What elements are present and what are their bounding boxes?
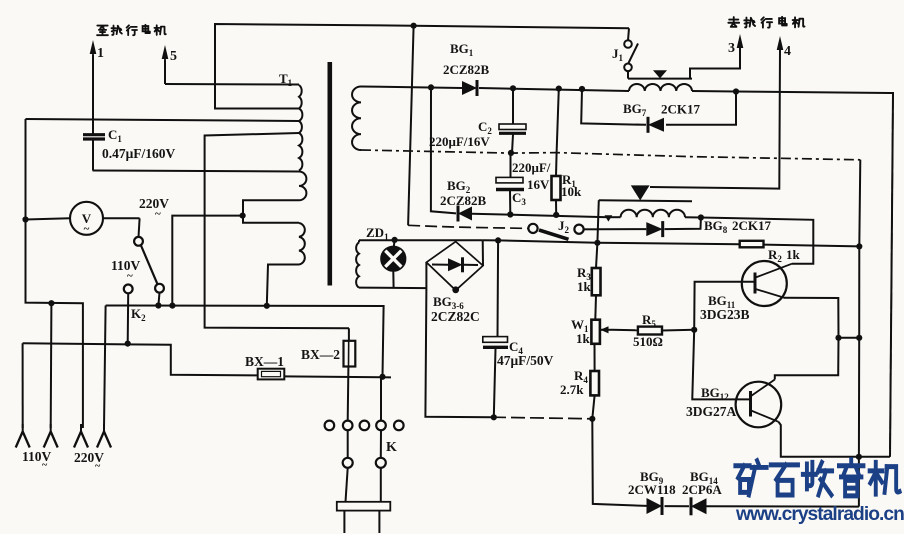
value 220uF/16V (C2)	[429, 134, 490, 149]
node: prong2 junction	[48, 300, 54, 306]
svg-text:10k: 10k	[561, 184, 582, 199]
wire: BG1 output rail y88	[479, 88, 629, 91]
svg-text:BX—1: BX—1	[245, 354, 284, 369]
resistor R4 2.7k	[590, 371, 599, 419]
diode BG2 2CZ82B	[458, 206, 472, 222]
mains plug prong A	[343, 511, 345, 533]
value 2CZ82C	[431, 309, 480, 324]
node: C2/C3 junction on dash rail	[508, 150, 514, 156]
wire: prong1 drop	[22, 343, 24, 428]
wire: BX1 to connector	[284, 376, 391, 420]
transistor BG11 3DG23B	[742, 261, 792, 306]
wire: far-east column x891	[890, 93, 893, 457]
wire: rail417 down to clamp rail	[592, 419, 646, 506]
lamp ZD1	[381, 240, 406, 288]
transistor BG12 3DG27A	[736, 380, 782, 428]
wire: rail-Q y343 to BX-1	[23, 343, 258, 375]
value 0.47uF/160V	[102, 146, 176, 161]
transformer primary winding S2	[299, 109, 302, 122]
label R3	[577, 265, 591, 282]
svg-text:5: 5	[170, 49, 177, 64]
pin label 1	[97, 46, 104, 61]
node: J2 coil-left junction	[605, 215, 613, 221]
mains prong 1	[16, 424, 30, 448]
wire: W1 bottom to R4	[594, 344, 596, 371]
wire: clamp mid link	[665, 505, 690, 507]
terminal arrow 4 (to motor)	[777, 36, 784, 51]
label 220V (plug)	[74, 450, 104, 472]
wire: BG11 emitter to mid node	[784, 298, 839, 338]
svg-text:4: 4	[784, 44, 791, 59]
wire: base column up to BG11	[694, 282, 753, 330]
label R4	[574, 368, 588, 385]
svg-text:2CZ82B: 2CZ82B	[440, 193, 487, 208]
svg-text:2CZ82C: 2CZ82C	[431, 309, 480, 324]
relay J2 armature arrow	[631, 185, 650, 200]
capacitor C1	[83, 135, 105, 171]
diode BG13 2CP6A	[691, 497, 707, 515]
resistor R1 10k	[552, 89, 561, 215]
wire: clamp rail east	[707, 505, 859, 507]
transformer primary winding S6	[299, 223, 305, 264]
svg-text:BX—2: BX—2	[301, 347, 340, 362]
svg-text:3DG27A: 3DG27A	[686, 404, 737, 419]
wire: R5 to base column	[662, 329, 694, 332]
label R1	[562, 172, 576, 189]
node: R1 tap	[556, 86, 562, 92]
label C3	[512, 190, 526, 207]
svg-text:~: ~	[95, 461, 101, 472]
relay J2 armature bar	[599, 200, 692, 201]
svg-text:2CW118: 2CW118	[628, 482, 676, 497]
node: 110V-tap on rail-P	[169, 303, 175, 309]
svg-text:K: K	[386, 440, 397, 455]
wire: R2 to east column	[764, 245, 860, 247]
svg-text:2CP6A: 2CP6A	[682, 482, 722, 497]
wire: BG2 out to J2 coil	[472, 214, 609, 218]
svg-text:3: 3	[728, 41, 735, 56]
connector K top pins	[325, 421, 404, 431]
label BG9	[640, 469, 664, 486]
wire: primary tap2 to top box	[215, 24, 629, 109]
node: K2-right on rail-P	[155, 302, 161, 308]
node: C2 tap	[510, 85, 516, 91]
transformer secondary-2 winding	[356, 242, 359, 287]
node: C4 tap on DC+ rail	[495, 237, 501, 243]
diode BG7 2CK17	[648, 117, 664, 133]
relay contact J2	[528, 224, 597, 240]
wire: primary joint-A	[243, 200, 299, 223]
wire: left rail x25	[26, 119, 83, 428]
wire: BG12 collector to mid node	[775, 338, 839, 380]
value 2.7k (R4)	[560, 382, 584, 397]
value 2CK17 (BG7)	[661, 102, 701, 117]
value 16V (C3)	[527, 177, 550, 192]
svg-text:1: 1	[97, 46, 104, 61]
node: voltmeter-left junction	[22, 216, 28, 222]
node: J2 coil-right junction	[698, 214, 704, 220]
label 110V (switch)	[111, 258, 141, 282]
wire: rail417	[492, 417, 592, 419]
wire: primary bottom lead	[267, 265, 299, 306]
wire: BG12 emitter rail	[779, 422, 891, 457]
svg-text:~: ~	[127, 270, 133, 282]
diode BG8 2CK17	[646, 221, 662, 237]
label BG8	[704, 218, 728, 235]
label BG1	[450, 41, 474, 58]
node: base column junction	[691, 327, 697, 333]
svg-text:220μF/16V: 220μF/16V	[429, 134, 490, 149]
value 47uF/50V	[497, 353, 554, 368]
resistor R2 1k	[740, 241, 764, 248]
mains prong 4	[97, 424, 111, 448]
label R2 1k	[768, 247, 801, 264]
node: bridge bottom vertex	[452, 286, 459, 293]
resistor R5 510	[638, 327, 662, 335]
svg-text:110V: 110V	[111, 258, 141, 273]
wire: secondary-1 bottom (dash rail y152)	[361, 150, 860, 160]
svg-text:1k: 1k	[577, 279, 592, 294]
relay J1 coil	[629, 84, 692, 91]
node: emitter/collector mid node	[835, 335, 841, 341]
label C4	[509, 339, 523, 356]
label BG2	[447, 178, 471, 195]
svg-text:www.crystalradio.cn: www.crystalradio.cn	[735, 504, 904, 525]
value 1k (W1)	[576, 331, 591, 346]
fuse BX-2	[344, 328, 356, 420]
watermark url www.crystalradio.cn	[735, 504, 904, 525]
wire: terminal4 drop to J2 armature	[650, 50, 780, 189]
label J1	[612, 46, 624, 63]
node: BG7 tap	[579, 86, 585, 92]
label BG14	[690, 469, 718, 486]
value 3DG23B	[700, 307, 750, 322]
capacitor C4	[483, 240, 508, 417]
wire: bridge right vertex riser	[482, 240, 484, 265]
potentiometer W1 1k	[591, 320, 638, 344]
svg-text:47μF/50V: 47μF/50V	[497, 353, 554, 368]
transformer secondary-1 winding	[352, 87, 361, 151]
terminal arrow 3 (to motor)	[737, 34, 744, 49]
capacitor C3	[496, 153, 524, 215]
svg-text:1k: 1k	[576, 331, 591, 346]
value 510ohm (R5)	[633, 334, 663, 349]
terminal arrow 1 (to motor)	[90, 40, 97, 135]
wire: bridge left column to rail417	[425, 262, 492, 417]
node: R4-bottom on rail417	[589, 416, 595, 422]
svg-text:2.7k: 2.7k	[560, 382, 584, 397]
relay contact J1	[624, 40, 638, 78]
node: east column mid junction	[856, 335, 862, 341]
wire: rail-P y305	[106, 306, 384, 377]
svg-text:0.47μF/160V: 0.47μF/160V	[102, 146, 176, 161]
value 10k (R1)	[561, 184, 582, 199]
label ZD1	[366, 225, 389, 242]
wire: BG7 branch	[581, 89, 736, 125]
mains prong 3	[74, 424, 88, 448]
label R5	[642, 312, 656, 329]
svg-text:~: ~	[42, 460, 48, 471]
svg-text:~: ~	[155, 208, 161, 220]
terminal arrow 5	[162, 45, 169, 84]
value 2CK17 (BG8)	[732, 218, 772, 233]
label BG7	[623, 101, 647, 118]
node: J1 coil-right junction	[733, 88, 739, 94]
label BG12	[701, 385, 729, 402]
node: rail-P to BX1 wire	[379, 374, 385, 380]
value 220uF/ (C3)	[512, 160, 551, 175]
wire: J1 coil right to east column	[692, 91, 893, 457]
node: K2-left on rail-Q	[125, 341, 131, 347]
wire: J2 bar drop to DC rail	[597, 200, 598, 243]
bridge rectifier BG3-6 outline	[426, 242, 483, 291]
wire: prong2 drop	[50, 303, 53, 428]
diode BG1 2CZ82B	[462, 80, 477, 96]
watermark text 矿石收音机	[735, 460, 899, 496]
wire: top wire corner to J1	[628, 28, 629, 40]
wire: top-left horizontal y119	[26, 119, 300, 121]
label BX-2	[301, 347, 340, 362]
svg-text:510Ω: 510Ω	[633, 334, 663, 349]
wire: terminal5 to primary top tap	[165, 83, 299, 86]
node: top wire junction	[411, 23, 417, 29]
mains plug body	[337, 502, 391, 511]
label W1	[571, 317, 589, 334]
capacitor C2	[499, 88, 526, 153]
wire: DC+ rail y242	[483, 240, 740, 244]
pin label 3	[728, 41, 735, 56]
label BG11	[708, 293, 736, 310]
wire: BG2 branch drop	[431, 87, 456, 213]
node: primary-bottom on rail-P	[264, 303, 270, 309]
label K2	[131, 306, 146, 323]
pin label 4	[784, 44, 791, 59]
relay J1 armature arrow	[653, 70, 667, 78]
node: R3 tap on DC+ rail	[594, 240, 600, 246]
wire: J2 coil to BG11 collector	[701, 218, 813, 264]
node: C3 bottom junction	[507, 211, 513, 217]
connector K lower pins	[343, 458, 386, 468]
label 110V (plug)	[22, 449, 52, 471]
node: lamp tap	[392, 237, 398, 243]
wire: secondary-2 bottom lead	[359, 287, 426, 290]
relay J1 armature bar	[628, 78, 692, 80]
wire: joint-A to 110V column	[172, 216, 242, 306]
svg-text:3DG23B: 3DG23B	[700, 307, 750, 322]
label C1	[108, 127, 122, 144]
svg-text:2CK17: 2CK17	[661, 102, 701, 117]
mains prong 2	[44, 424, 58, 448]
transformer T1 core	[328, 62, 333, 286]
bridge inner diode	[432, 257, 478, 272]
svg-text:2CK17: 2CK17	[732, 218, 772, 233]
value 2CW118	[628, 482, 676, 497]
wire: J2 feed dash	[408, 225, 528, 228]
transformer primary winding S5	[299, 172, 306, 201]
transformer primary winding S4	[299, 133, 302, 171]
pin label 5	[170, 49, 177, 64]
wire: secondary-2 top lead	[359, 240, 483, 242]
value 1k (R3)	[577, 279, 592, 294]
value 2CZ82B (BG1)	[443, 62, 490, 77]
svg-text:2CZ82B: 2CZ82B	[443, 62, 490, 77]
node: R1 bottom junction	[553, 212, 559, 218]
label: 至执行电机 (to actuator motor)	[97, 25, 166, 35]
label: 去执行电机 (to actuator motor)	[728, 17, 804, 28]
fuse BX-1	[258, 369, 285, 380]
node: R2-east junction	[856, 243, 862, 249]
wire: east column x859	[859, 160, 860, 507]
label J2	[558, 218, 570, 235]
wire: BG8 branch	[598, 218, 701, 230]
wire: K pin links	[346, 430, 382, 501]
label BG3-6	[433, 294, 464, 311]
label 220V (switch top)	[139, 196, 169, 220]
voltmeter V	[26, 202, 140, 235]
node: BG2 tap	[428, 84, 434, 90]
svg-text:16V: 16V	[527, 177, 550, 192]
wire: C1 bottom to primary tap (y171)	[93, 171, 299, 172]
label T1	[279, 71, 293, 88]
svg-text:1k: 1k	[786, 247, 801, 262]
wire: secondary-1 top to BG1	[361, 87, 462, 89]
transformer primary winding S3	[299, 121, 302, 133]
wire: J2 coil right	[685, 216, 701, 218]
wire: terminal3 to J1 armature	[690, 48, 740, 79]
svg-text:~: ~	[84, 223, 90, 235]
wire: mid node to east column	[839, 337, 860, 339]
node: C4-minus on rail417	[491, 414, 497, 420]
value 2CZ82B (BG2)	[440, 193, 487, 208]
wire: base column down to BG12	[692, 330, 749, 400]
wire: primary tap4 via x204 column	[205, 133, 349, 328]
label BX-1	[245, 354, 284, 369]
value 3DG27A	[686, 404, 737, 419]
switch K2	[124, 218, 164, 343]
resistor R3 1k	[592, 243, 601, 320]
node: emitter rail / east column	[856, 454, 862, 460]
value 2CP6A	[682, 482, 722, 497]
label K	[386, 440, 397, 455]
diode BG9 2CW118	[647, 497, 663, 515]
transformer primary winding S1	[299, 85, 302, 109]
wire: top-wire drop x411 to J2	[408, 26, 414, 226]
node: joint-A dot	[240, 213, 246, 219]
label C2	[478, 119, 492, 136]
wire: prong4 drop	[104, 306, 106, 429]
mains plug prong B	[378, 511, 380, 533]
relay J2 coil	[609, 210, 685, 217]
svg-text:220μF/: 220μF/	[512, 160, 551, 175]
